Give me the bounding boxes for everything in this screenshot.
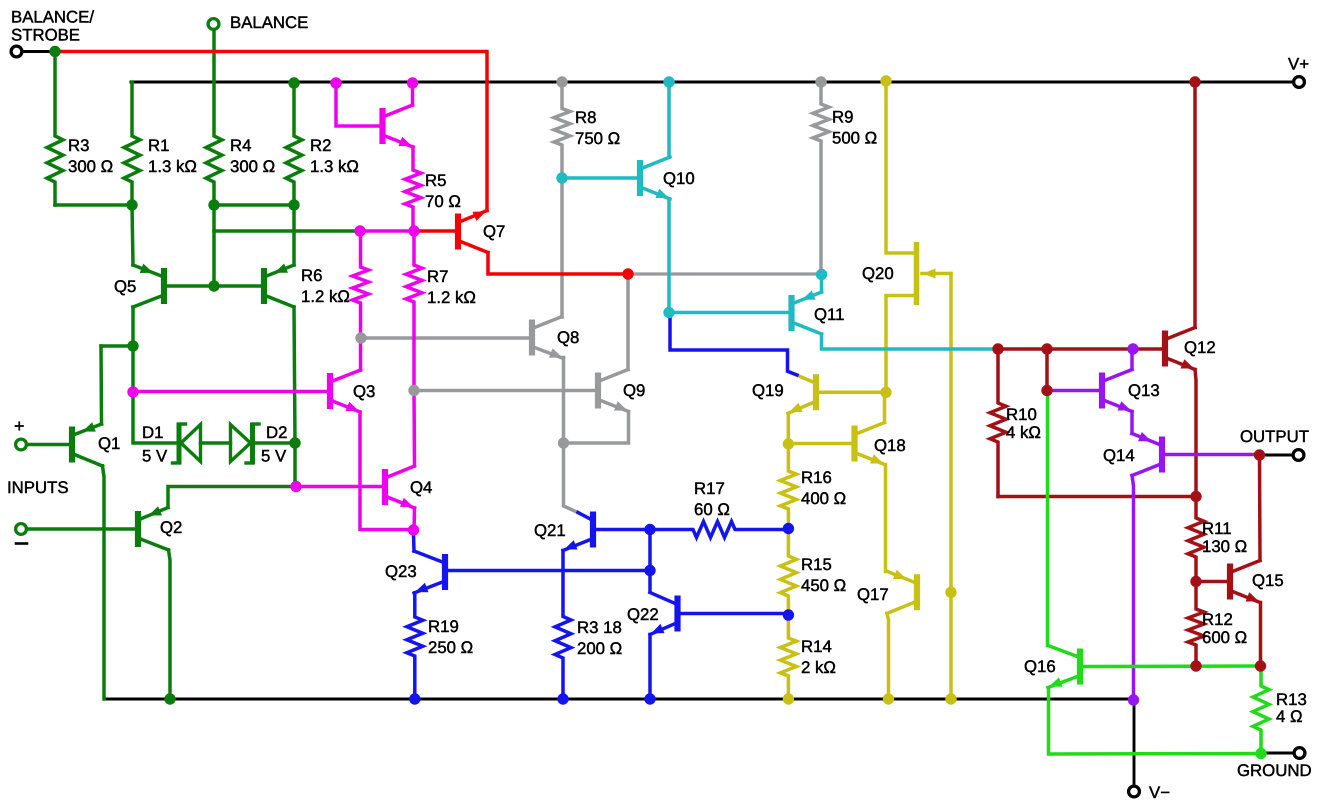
svg-text:130 Ω: 130 Ω xyxy=(1202,537,1247,556)
wire Q15 emitter down xyxy=(1259,603,1263,667)
wire base tap to R6 node xyxy=(214,229,360,233)
label Q17 xyxy=(857,585,889,604)
label + polarity xyxy=(14,416,25,436)
label R19 name xyxy=(428,617,459,636)
transistor Q16 xyxy=(1048,646,1080,688)
wire Q14 base to output xyxy=(1164,453,1258,457)
wire Q10 emitter to Q19 collector xyxy=(670,314,797,375)
svg-text:D2: D2 xyxy=(266,423,287,442)
transistor Q13 xyxy=(1102,370,1132,412)
svg-text:Q9: Q9 xyxy=(623,381,645,400)
wire node to Q13 base junction xyxy=(1045,349,1049,391)
svg-text:R1: R1 xyxy=(148,136,169,155)
terminal V+ xyxy=(1294,77,1305,88)
wire Q12 collector to V+ xyxy=(1193,82,1197,328)
wire top mirror collector xyxy=(411,83,415,105)
node Q10 emitter / Q11 base xyxy=(663,307,674,318)
wire Q20 source down xyxy=(886,296,914,393)
wire Q5 collector chain down xyxy=(133,307,179,443)
node Q13 base junction xyxy=(1041,343,1052,354)
label INPUTS xyxy=(7,478,69,497)
label Q16 xyxy=(1024,657,1056,676)
wire Q7 collector to R9 bottom xyxy=(628,272,821,275)
wire D2 to node xyxy=(253,441,296,445)
svg-text:R19: R19 xyxy=(428,617,459,636)
label Q12 xyxy=(1184,338,1216,357)
svg-text:R17: R17 xyxy=(694,479,725,498)
label R1 name xyxy=(148,136,169,155)
resistor R17 xyxy=(650,522,788,538)
svg-text:2 kΩ: 2 kΩ xyxy=(801,658,836,677)
wire Q13 collector up xyxy=(1130,349,1134,370)
wire Q7 collector out xyxy=(488,253,628,275)
svg-text:750 Ω: 750 Ω xyxy=(575,129,620,148)
transistor Q18 xyxy=(855,423,885,465)
svg-text:OUTPUT: OUTPUT xyxy=(1240,427,1309,446)
resistor R16 xyxy=(780,444,796,529)
terminal GROUND xyxy=(1294,748,1305,759)
wire Q1 base xyxy=(26,443,69,447)
wire Q1 collector down xyxy=(103,466,105,699)
diode D1 xyxy=(173,423,201,465)
label R6 name xyxy=(301,266,322,285)
label R7 name xyxy=(427,267,448,286)
node R10/R11 junction xyxy=(1190,491,1201,502)
wire Q14 collector down xyxy=(1132,476,1134,701)
resistor R11 xyxy=(1188,497,1204,582)
wire Q19 base xyxy=(818,391,886,395)
wire R4-R2 bottom xyxy=(214,203,294,207)
label Q10 xyxy=(663,169,695,188)
label R16 name xyxy=(801,468,832,487)
node R7 bottom / Q9 base xyxy=(408,385,419,396)
resistor R7 xyxy=(406,231,422,391)
transistor Q1 xyxy=(72,422,103,466)
wire R10 bottom link xyxy=(998,495,1196,499)
wire Q13 base xyxy=(1049,389,1100,393)
wire R2 to Q6 xyxy=(292,205,296,265)
node R19 on rail xyxy=(409,693,420,704)
wire output node to Q12 base xyxy=(998,347,1163,351)
wire Q11 collector to node xyxy=(822,334,999,349)
label R18 value xyxy=(577,639,622,658)
transistor Q10 xyxy=(640,157,670,199)
label R13 name xyxy=(1276,690,1307,709)
svg-text:Q10: Q10 xyxy=(663,169,695,188)
label Q14 xyxy=(1103,446,1135,465)
terminal BALANCE/STROBE xyxy=(11,46,22,57)
svg-text:D1: D1 xyxy=(142,423,163,442)
node R14 on rail xyxy=(783,693,794,704)
label Q19 xyxy=(752,381,784,400)
node output junction xyxy=(1254,449,1265,460)
label R10 value xyxy=(1006,423,1041,442)
wire Q11 emitter up xyxy=(820,275,824,292)
diode D2 xyxy=(231,423,260,465)
label STROBE line2 xyxy=(11,26,80,45)
wire output stub xyxy=(1259,454,1293,457)
transistor Q20 gate arrow xyxy=(922,269,951,279)
node Q13 base tee xyxy=(1041,385,1052,396)
svg-text:+: + xyxy=(14,416,25,436)
wire bases to balance node xyxy=(212,205,216,286)
label R3 name xyxy=(68,136,89,155)
svg-text:Q22: Q22 xyxy=(627,605,659,624)
label R14 value xyxy=(801,658,836,677)
terminal OUTPUT xyxy=(1293,450,1304,461)
label R19 value xyxy=(428,638,473,657)
svg-text:Q3: Q3 xyxy=(353,382,375,401)
node mirror base on rail xyxy=(330,77,341,88)
svg-text:BALANCE: BALANCE xyxy=(230,13,308,32)
svg-text:60 Ω: 60 Ω xyxy=(694,500,730,519)
wire Q4 base xyxy=(297,485,383,489)
svg-text:600 Ω: 600 Ω xyxy=(1202,628,1247,647)
wire V+ rail xyxy=(131,81,1293,84)
node R6 top xyxy=(354,225,365,236)
label Q15 xyxy=(1252,571,1284,590)
svg-text:300 Ω: 300 Ω xyxy=(68,157,113,176)
wire Q6 collector to D2 node xyxy=(294,307,295,487)
resistor R5 xyxy=(405,147,421,231)
wire Q20 drain from V+ rail xyxy=(886,82,914,253)
svg-text:Q1: Q1 xyxy=(98,434,120,453)
wire Q16 collector up xyxy=(1046,391,1050,646)
wire bottom rail xyxy=(104,698,1134,701)
wire Q10 base xyxy=(562,176,638,180)
label R6 value xyxy=(301,287,350,306)
wire Q18 collector up xyxy=(883,392,887,422)
transistor Q4 xyxy=(385,466,415,508)
svg-text:4 kΩ: 4 kΩ xyxy=(1006,423,1041,442)
node Q2/Q4 link xyxy=(290,481,301,492)
wire R5 node to Q7 base xyxy=(416,229,456,233)
svg-text:R5: R5 xyxy=(425,171,446,190)
transistor Q7 xyxy=(458,211,488,253)
svg-text:GROUND: GROUND xyxy=(1237,761,1312,780)
wire Q9 base xyxy=(415,389,596,393)
svg-text:R10: R10 xyxy=(1006,405,1037,424)
label R9 name xyxy=(832,108,853,127)
svg-text:R9: R9 xyxy=(832,108,853,127)
label R15 name xyxy=(801,555,832,574)
svg-text:INPUTS: INPUTS xyxy=(7,478,69,497)
transistor Q12 xyxy=(1165,328,1195,370)
wire Q8 emitter down xyxy=(564,358,579,513)
node balance/strobe junction xyxy=(49,46,60,57)
svg-text:Q12: Q12 xyxy=(1184,338,1216,357)
svg-text:R11: R11 xyxy=(1202,519,1232,538)
label R14 name xyxy=(801,637,832,656)
svg-text:Q13: Q13 xyxy=(1128,381,1160,400)
svg-text:5 V: 5 V xyxy=(142,447,168,466)
svg-text:BALANCE/: BALANCE/ xyxy=(11,8,94,27)
svg-text:500 Ω: 500 Ω xyxy=(832,129,877,148)
svg-text:Q7: Q7 xyxy=(483,222,505,241)
wire Q11 base xyxy=(669,311,789,315)
node Q21 base / R17 xyxy=(644,524,655,535)
wire Q1 emitter link xyxy=(101,344,133,348)
wire Q15 base xyxy=(1198,580,1227,584)
node Q17 base tap xyxy=(945,587,956,598)
node R4 bottom xyxy=(208,199,219,210)
label Q18 xyxy=(874,436,906,455)
wire Q8 base xyxy=(361,336,530,340)
label R18 name xyxy=(577,618,622,637)
wire Q23 base xyxy=(447,569,650,573)
svg-text:Q4: Q4 xyxy=(410,478,432,497)
terminal V- xyxy=(1129,786,1140,797)
label GROUND xyxy=(1237,761,1312,780)
label R3 value xyxy=(68,157,113,176)
wire Q19 emitter down xyxy=(787,413,791,446)
svg-text:Q17: Q17 xyxy=(857,585,889,604)
svg-text:Q19: Q19 xyxy=(752,381,784,400)
wire R1 to Q5 xyxy=(132,205,133,265)
resistor R6 xyxy=(353,231,369,338)
svg-text:Q15: Q15 xyxy=(1252,571,1284,590)
wire Q4 emitter down xyxy=(412,508,416,533)
label BALANCE/ line1 xyxy=(11,8,94,27)
label BALANCE xyxy=(230,13,308,32)
label D1 value xyxy=(142,447,168,466)
svg-text:R2: R2 xyxy=(310,136,331,155)
label R7 value xyxy=(427,288,476,307)
transistor Q21 xyxy=(563,512,593,551)
transistor Q9 xyxy=(598,370,629,412)
wire Q18 base xyxy=(788,442,852,446)
svg-text:Q21: Q21 xyxy=(534,521,566,540)
node R8 top on rail xyxy=(556,76,567,87)
label R13 value xyxy=(1276,707,1303,726)
node Q10 collector on rail xyxy=(663,76,674,87)
node R5/R7 junction xyxy=(408,225,419,236)
svg-text:Q18: Q18 xyxy=(874,436,906,455)
wire Q20 gate down to Q17 base and rail xyxy=(949,274,953,700)
node Q11 emitter / R9 xyxy=(816,269,827,280)
label R17 name xyxy=(694,479,725,498)
resistor R9 xyxy=(813,82,829,274)
wire Q3 base xyxy=(134,390,328,394)
wire Q2 collector down xyxy=(169,550,171,699)
wire Q10 emitter down xyxy=(667,199,671,313)
svg-text:1.2 kΩ: 1.2 kΩ xyxy=(301,287,350,306)
wire Q18 emitter down xyxy=(884,465,888,572)
wire Q2 base xyxy=(26,527,135,531)
wire Q10 collector up xyxy=(667,82,671,157)
label R2 value xyxy=(310,157,359,176)
label R11 name xyxy=(1202,519,1232,538)
label Q11 xyxy=(814,305,844,324)
transistor Q19 xyxy=(788,371,816,413)
terminal - input xyxy=(16,524,27,535)
label R15 value xyxy=(801,576,846,595)
node Q12 collector on rail xyxy=(1189,76,1200,87)
transistor Q3 xyxy=(330,370,361,412)
node Q22 emitter on rail xyxy=(644,693,655,704)
wire Q2 emitter up xyxy=(168,487,294,508)
svg-text:V+: V+ xyxy=(1288,55,1309,74)
wire Q15 collector to output xyxy=(1258,456,1262,561)
resistor R4 xyxy=(206,30,222,205)
node Q15 emitter / R13 xyxy=(1255,660,1266,671)
wire Q17 collector down xyxy=(887,613,889,699)
node Q20 drain on rail xyxy=(880,75,891,86)
wire R3-R1 bottom xyxy=(55,203,132,207)
transistor Qtop xyxy=(383,105,414,147)
wire balance/strobe to Q7 emitter xyxy=(55,52,487,211)
label R10 name xyxy=(1006,405,1037,424)
node D2 right xyxy=(289,437,300,448)
node Q23 base tap xyxy=(644,565,655,576)
transistor Q20 channel bar xyxy=(914,242,920,305)
label R8 value xyxy=(575,129,620,148)
node Q14 collector / V- xyxy=(1128,694,1139,705)
node R12 bottom xyxy=(1190,660,1201,671)
node mirror collector on rail xyxy=(407,77,418,88)
svg-text:R3: R3 xyxy=(68,136,89,155)
wire ground stub xyxy=(1261,752,1294,755)
svg-text:4 Ω: 4 Ω xyxy=(1276,707,1303,726)
svg-text:300 Ω: 300 Ω xyxy=(230,157,275,176)
wire D1-D2 link xyxy=(201,441,231,445)
node R1 bottom xyxy=(126,199,137,210)
transistor Q11 xyxy=(792,291,822,335)
svg-text:Q20: Q20 xyxy=(862,264,894,283)
transistor Q22 xyxy=(650,593,678,635)
label D2 value xyxy=(261,447,287,466)
resistor R3 xyxy=(47,52,63,206)
svg-text:1.3 kΩ: 1.3 kΩ xyxy=(148,157,197,176)
node R10 top xyxy=(992,343,1003,354)
wire Q16 base to R12/R13 xyxy=(1082,664,1261,668)
label Q3 xyxy=(353,382,375,401)
svg-text:Q23: Q23 xyxy=(385,562,417,581)
wire Q22 emitter down xyxy=(648,635,652,700)
transistor Q8 xyxy=(532,317,564,359)
wire Q3 emitter loop xyxy=(360,412,414,530)
label R9 value xyxy=(832,129,877,148)
svg-text:450 Ω: 450 Ω xyxy=(801,576,846,595)
transistor Q23 xyxy=(414,551,445,593)
svg-text:Q16: Q16 xyxy=(1024,657,1056,676)
node R16/R15 junction xyxy=(783,523,794,534)
label Q9 xyxy=(623,381,645,400)
transistor Q14 xyxy=(1132,432,1162,476)
node Q10 base tap xyxy=(556,172,567,183)
node Q5/Q6 bases xyxy=(208,280,219,291)
resistor R19 xyxy=(407,593,423,699)
label R5 value xyxy=(425,192,461,211)
label Q5 xyxy=(114,277,136,296)
label - polarity xyxy=(16,542,27,545)
label R11 value xyxy=(1202,537,1247,556)
node R9 top on rail xyxy=(815,76,826,87)
svg-text:400 Ω: 400 Ω xyxy=(801,489,846,508)
svg-text:Q11: Q11 xyxy=(814,305,844,324)
svg-text:R12: R12 xyxy=(1202,610,1233,629)
svg-text:V−: V− xyxy=(1149,783,1170,802)
resistor R12 xyxy=(1188,582,1204,667)
svg-text:R15: R15 xyxy=(801,555,832,574)
transistor Q5 xyxy=(133,264,164,307)
node Q3 base tap xyxy=(127,386,138,397)
svg-text:Q5: Q5 xyxy=(114,277,136,296)
label Q1 xyxy=(98,434,120,453)
svg-text:200 Ω: 200 Ω xyxy=(577,639,622,658)
svg-text:Q2: Q2 xyxy=(160,518,182,537)
label R12 value xyxy=(1202,628,1247,647)
svg-text:STROBE: STROBE xyxy=(11,26,80,45)
resistor R13 xyxy=(1253,666,1269,754)
terminal + input xyxy=(16,439,27,450)
label Q23 xyxy=(385,562,417,581)
resistor R14 xyxy=(780,615,796,699)
resistor R15 xyxy=(780,529,796,616)
svg-text:R6: R6 xyxy=(301,266,322,285)
label R2 name xyxy=(310,136,331,155)
wire Q5/Q6 base bar xyxy=(164,284,264,288)
node R11/R12 / Q15 base xyxy=(1190,576,1201,587)
label Q22 xyxy=(627,605,659,624)
transistor Q2 xyxy=(138,506,169,550)
node Q1 emitter join xyxy=(127,340,138,351)
resistor R2 xyxy=(286,83,302,205)
wire Q22 base xyxy=(680,612,789,616)
node R6 bottom / Q8 base xyxy=(355,332,366,343)
wire Q9 emitter loop xyxy=(564,412,629,444)
resistor R8 xyxy=(554,82,570,317)
svg-text:R7: R7 xyxy=(427,267,448,286)
svg-text:Q8: Q8 xyxy=(557,328,579,347)
wire Q1 emitter up xyxy=(99,346,103,424)
label Q13 xyxy=(1128,381,1160,400)
node R2 bottom xyxy=(288,199,299,210)
terminal BALANCE xyxy=(208,19,219,30)
resistor R1 xyxy=(124,82,140,205)
node Q2 collector on rail xyxy=(164,693,175,704)
label R8 name xyxy=(575,108,596,127)
node Q3/Q4 emitters xyxy=(408,524,419,535)
svg-text:Q14: Q14 xyxy=(1103,446,1135,465)
node Q19 base / Q18 collector xyxy=(880,387,891,398)
svg-text:R3 18: R3 18 xyxy=(577,618,622,637)
node R15/R14 junction xyxy=(783,609,794,620)
resistor R18 xyxy=(555,551,571,700)
label V+ xyxy=(1288,55,1309,74)
wire R6 top node link xyxy=(360,229,414,233)
label R4 name xyxy=(230,136,251,155)
resistor R10 xyxy=(990,349,1006,497)
wire Q21 base to R17 xyxy=(595,528,652,532)
wire R6 to Q3 collector xyxy=(359,338,363,370)
label R17 value xyxy=(694,500,730,519)
wire top mirror base xyxy=(336,83,380,126)
label D1 xyxy=(142,423,163,442)
label Q20 xyxy=(862,264,894,283)
label Q21 xyxy=(534,521,566,540)
wire Q13 emitter to Q14 xyxy=(1130,412,1134,434)
label Q7 xyxy=(483,222,505,241)
transistor Q17 xyxy=(887,570,917,614)
node R18 on rail xyxy=(557,693,568,704)
label OUTPUT xyxy=(1240,427,1309,446)
label Q8 xyxy=(557,328,579,347)
wire V- drop xyxy=(1133,699,1136,786)
label Q4 xyxy=(410,478,432,497)
svg-text:5 V: 5 V xyxy=(261,447,287,466)
svg-text:1.3 kΩ: 1.3 kΩ xyxy=(310,157,359,176)
